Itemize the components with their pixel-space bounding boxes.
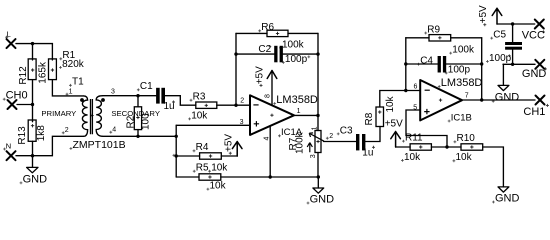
wire R3 right to IC1A pin2 bbox=[217, 104, 250, 106]
svg-text:100p: 100p bbox=[285, 54, 308, 65]
trimmer R7 wiper arrow bbox=[307, 133, 324, 152]
wire R5 left lead bbox=[176, 176, 199, 178]
svg-text:ZMPT101B: ZMPT101B bbox=[73, 139, 126, 151]
svg-text:LM358D: LM358D bbox=[441, 77, 483, 89]
+5V arrow at IC1A pin8 bbox=[267, 71, 277, 79]
svg-text:R9: R9 bbox=[427, 24, 440, 35]
svg-text:1u: 1u bbox=[164, 101, 175, 112]
wire IC1B pin5 to bias bbox=[406, 110, 447, 147]
svg-text:10k: 10k bbox=[404, 152, 421, 163]
junction L/R12 bbox=[31, 42, 34, 45]
connector pin CH0 bbox=[8, 100, 17, 109]
connector pin L bbox=[7, 39, 16, 48]
transformer T1 secondary winding bbox=[96, 96, 103, 137]
connector pin VCC bbox=[535, 20, 544, 29]
svg-text:1: 1 bbox=[69, 88, 73, 95]
wire C2 left lead bbox=[236, 53, 274, 55]
wire C5 top lead bbox=[512, 24, 514, 42]
ground symbol under R10 bbox=[498, 187, 509, 192]
svg-text:10k: 10k bbox=[211, 163, 228, 174]
wire R13 bottom to N node bbox=[32, 141, 34, 155]
svg-text:3: 3 bbox=[111, 88, 115, 95]
resistor R12 bbox=[28, 59, 36, 80]
svg-text:2: 2 bbox=[65, 127, 69, 134]
junction C2 right bbox=[316, 52, 319, 55]
wire N stub bbox=[16, 155, 33, 157]
wire R12 top lead bbox=[32, 44, 34, 60]
junction secondary bottom / bias bbox=[175, 135, 178, 138]
junction C4 left bbox=[404, 62, 407, 65]
wire GND rail R5 to R7 bbox=[221, 176, 318, 178]
svg-text:+5V: +5V bbox=[385, 118, 403, 129]
wire R2 bottom lead bbox=[137, 130, 139, 137]
svg-text:R2: R2 bbox=[126, 115, 137, 128]
svg-text:10k: 10k bbox=[210, 181, 227, 192]
wire +5V to R11 bbox=[396, 146, 411, 148]
connector pin GND bbox=[535, 60, 544, 69]
wire IC1A pin8 stub bbox=[271, 71, 273, 105]
wire C5 bottom lead bbox=[512, 50, 514, 65]
junction C2 left bbox=[234, 52, 237, 55]
svg-text:3: 3 bbox=[240, 119, 244, 126]
op-amp U1B triangle bbox=[420, 80, 462, 120]
wire R9 right lead bbox=[451, 37, 482, 39]
resistor boxes bbox=[28, 30, 483, 180]
junction IC1A pin4 / GND rail bbox=[269, 175, 272, 178]
svg-text:4: 4 bbox=[112, 127, 116, 134]
junction IC1B output node bbox=[480, 98, 483, 101]
svg-text:R10: R10 bbox=[457, 133, 476, 144]
tiny anchor plus marks bbox=[5, 23, 549, 155]
junction IC1A output node bbox=[316, 114, 319, 117]
svg-text:3: 3 bbox=[310, 154, 317, 158]
wire R4 right to +5V bbox=[221, 142, 237, 156]
wire L net top bbox=[16, 43, 52, 45]
wire R12 bottom to R13 top through CH0 bbox=[32, 80, 34, 121]
junction IC1A pin2 node bbox=[234, 104, 237, 107]
wire IC1A output bbox=[294, 114, 318, 116]
wire N node to GND bbox=[32, 156, 34, 168]
+5V arrow top right bbox=[492, 8, 502, 24]
wire R4 left lead bbox=[176, 155, 199, 157]
svg-text:100: 100 bbox=[141, 113, 152, 130]
op-amp U1A triangle bbox=[250, 95, 294, 135]
svg-text:1k8: 1k8 bbox=[36, 125, 47, 142]
svg-text:100k: 100k bbox=[282, 39, 305, 50]
svg-text:10k: 10k bbox=[191, 110, 208, 121]
wire R7 wiper to C3 bbox=[324, 141, 357, 143]
wire feedback A left vertical bbox=[235, 33, 237, 105]
resistor R13 bbox=[28, 120, 36, 141]
svg-text:1: 1 bbox=[312, 126, 319, 130]
svg-text:165k: 165k bbox=[38, 61, 49, 84]
wire R1 top lead bbox=[51, 44, 53, 60]
svg-text:5: 5 bbox=[413, 105, 417, 112]
resistor R6 bbox=[267, 30, 288, 36]
svg-text:N: N bbox=[6, 141, 12, 150]
junction R11/R10/pin5 bbox=[445, 145, 448, 148]
anchor tick marks bbox=[3, 29, 511, 204]
wire IC1A pin4 stub bbox=[269, 126, 271, 177]
junction R2 top bbox=[136, 94, 139, 97]
junction C5 top bbox=[511, 22, 514, 25]
svg-text:100p: 100p bbox=[489, 53, 512, 64]
wire C1 to R3 with jog bbox=[164, 96, 196, 106]
transformer T1 polarity dots bbox=[80, 98, 105, 102]
wire R10 right to GND bbox=[483, 147, 504, 187]
wire CH0 stub bbox=[17, 104, 33, 106]
junction C5 bottom bbox=[511, 63, 514, 66]
svg-text:4: 4 bbox=[263, 137, 270, 141]
svg-text:R3: R3 bbox=[193, 92, 206, 103]
resistor R9 bbox=[429, 35, 451, 41]
junction R7 pin3 / GND rail bbox=[317, 175, 320, 178]
resistor R4 bbox=[200, 153, 222, 159]
svg-text:T1: T1 bbox=[72, 77, 84, 88]
wire T1 pin3 to C1 bbox=[103, 95, 156, 97]
svg-text:+5V: +5V bbox=[224, 134, 235, 152]
svg-text:1: 1 bbox=[297, 108, 301, 115]
wire C5 bottom rail to GND pin bbox=[503, 63, 535, 65]
svg-text:2: 2 bbox=[329, 133, 333, 140]
wire IC1B output to CH1 bbox=[462, 99, 535, 101]
svg-text:IC1B: IC1B bbox=[451, 112, 472, 123]
wire feedback A right vertical to R7 bbox=[317, 33, 319, 130]
wire feedback B right vertical bbox=[481, 38, 483, 100]
svg-text:R11: R11 bbox=[405, 133, 423, 144]
capacitor C3 bbox=[356, 134, 365, 150]
svg-text:GND: GND bbox=[522, 68, 547, 80]
trimmer R7 body bbox=[315, 131, 321, 153]
svg-text:GND: GND bbox=[23, 173, 47, 185]
svg-text:6: 6 bbox=[414, 84, 418, 91]
wire bias vertical bbox=[175, 125, 177, 177]
svg-text:R5: R5 bbox=[196, 163, 209, 174]
transformer T1 core bbox=[91, 99, 93, 134]
connector pin N bbox=[7, 151, 16, 160]
ground symbol under C5 bbox=[498, 85, 509, 90]
ground symbol under R7 bbox=[313, 188, 324, 193]
svg-text:C5: C5 bbox=[493, 30, 506, 41]
+5V arrow at R11 bbox=[391, 132, 401, 148]
svg-text:LM358D: LM358D bbox=[276, 94, 318, 106]
junction IC1B pin6 node bbox=[404, 89, 407, 92]
transformer T1 primary winding bbox=[82, 96, 87, 136]
op-amp input polarity marks bbox=[253, 90, 429, 126]
svg-text:100p: 100p bbox=[448, 64, 471, 75]
+5V arrow at R4 bbox=[232, 142, 242, 156]
svg-text:2: 2 bbox=[240, 97, 244, 104]
resistor R5 bbox=[199, 174, 221, 180]
wire C4 left lead bbox=[406, 63, 438, 65]
junction C4 right bbox=[480, 62, 483, 65]
wire GND stem under C5 bbox=[502, 64, 504, 85]
wire R7 bottom to GND rail bbox=[317, 153, 319, 178]
svg-text:C3: C3 bbox=[340, 125, 353, 136]
wire T1 pin2 to N node bbox=[33, 136, 84, 155]
wire R9 left lead bbox=[406, 37, 429, 39]
capacitor C1 bbox=[156, 88, 165, 104]
svg-text:CH0: CH0 bbox=[6, 90, 28, 102]
svg-text:PRIMARY: PRIMARY bbox=[41, 109, 76, 118]
connector pin CH1 bbox=[536, 96, 545, 105]
svg-text:C1: C1 bbox=[140, 81, 153, 92]
junction CH0/R12/R13 bbox=[31, 103, 34, 106]
svg-text:+5V: +5V bbox=[255, 66, 266, 84]
resistor R1 bbox=[49, 59, 57, 80]
junction R2 bottom bbox=[136, 135, 139, 138]
capacitor C4 bbox=[438, 56, 447, 73]
resistor R10 bbox=[461, 144, 483, 150]
svg-text:10k: 10k bbox=[385, 95, 396, 112]
svg-text:R8: R8 bbox=[364, 112, 375, 125]
svg-text:R12: R12 bbox=[18, 66, 29, 85]
junction R4 left bbox=[175, 154, 178, 157]
svg-text:C4: C4 bbox=[420, 56, 433, 67]
wire R2 top lead bbox=[137, 96, 139, 107]
wire C4 right lead bbox=[446, 63, 482, 65]
svg-text:7: 7 bbox=[465, 92, 469, 99]
svg-text:GND: GND bbox=[495, 92, 520, 104]
wire R6 left lead bbox=[236, 32, 267, 34]
svg-text:GND: GND bbox=[495, 192, 520, 204]
resistor R3 bbox=[196, 102, 217, 108]
wire R6 right lead bbox=[288, 32, 318, 34]
wire R8 top to IC1B pin6 bbox=[380, 91, 420, 108]
svg-text:GND: GND bbox=[310, 193, 335, 205]
wire T1 pin4 to bias node bbox=[103, 135, 176, 137]
junction N/R13/GND bbox=[31, 154, 34, 157]
wire R11 to R10 bbox=[431, 146, 461, 148]
svg-text:R13: R13 bbox=[17, 126, 28, 145]
svg-text:10k: 10k bbox=[456, 152, 473, 163]
small plus marks inside resistor boxes bbox=[31, 32, 474, 179]
svg-text:VCC: VCC bbox=[522, 30, 545, 42]
resistor R2 bbox=[134, 107, 141, 130]
ground symbol left bbox=[27, 167, 38, 172]
wire R7 GND stem bbox=[317, 177, 319, 188]
svg-text:100k: 100k bbox=[295, 131, 306, 154]
capacitor C5 bbox=[505, 42, 522, 50]
svg-text:100k: 100k bbox=[452, 45, 475, 56]
wire +5V top rail to VCC bbox=[497, 23, 535, 25]
svg-text:820k: 820k bbox=[62, 59, 85, 70]
wire C2 right lead bbox=[283, 53, 318, 55]
capacitor C2 bbox=[274, 46, 283, 63]
resistor R8 bbox=[376, 107, 384, 127]
wire R1 bottom to T1 pin1 bbox=[52, 80, 83, 96]
wire feedback B left vertical bbox=[405, 38, 407, 91]
resistor R11 bbox=[410, 144, 431, 150]
svg-text:1u: 1u bbox=[362, 148, 373, 159]
wire C3 right to R8 bbox=[366, 127, 381, 142]
svg-text:CH1: CH1 bbox=[523, 106, 545, 118]
svg-text:+5V: +5V bbox=[478, 5, 489, 23]
wire IC1A pin3 bbox=[176, 124, 250, 126]
svg-text:8: 8 bbox=[265, 94, 272, 98]
svg-text:R6: R6 bbox=[261, 22, 274, 33]
svg-text:R4: R4 bbox=[196, 142, 209, 153]
